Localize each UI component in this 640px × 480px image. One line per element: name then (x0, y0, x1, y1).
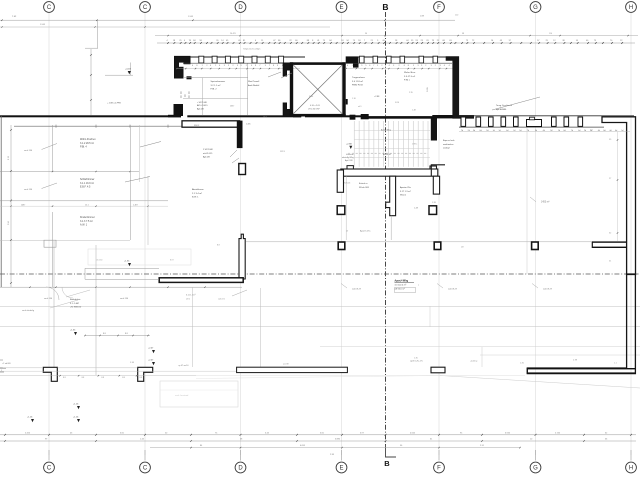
svg-text:8.8: 8.8 (101, 377, 104, 379)
svg-text:2d: 2d (513, 130, 515, 132)
svg-text:4: 4 (444, 65, 445, 67)
svg-text:T.Bqm.Dicht w.Bqm: T.Bqm.Dicht w.Bqm (243, 48, 261, 51)
svg-text:3.885: 3.885 (335, 439, 341, 441)
svg-text:wohnfl.29: wohnfl.29 (352, 288, 362, 290)
svg-text:E: E (339, 466, 343, 472)
svg-text:F.90 x: F.90 x (404, 80, 411, 82)
svg-text:9: 9 (277, 65, 278, 67)
svg-text:3.5 47.5 m²: 3.5 47.5 m² (404, 75, 415, 78)
svg-text:B: B (382, 2, 388, 12)
svg-text:+d.dd sp: +d.dd sp (470, 361, 477, 363)
svg-text:C: C (47, 5, 52, 11)
svg-text:3d: 3d (550, 130, 552, 132)
svg-text:5: 5 (377, 65, 378, 67)
svg-text:D: D (238, 5, 243, 11)
svg-text:2.635: 2.635 (427, 87, 429, 92)
svg-text:1: 1 (202, 65, 203, 67)
svg-text:Wnd.Trennfl: Wnd.Trennfl (248, 80, 260, 83)
svg-text:9: 9 (241, 65, 242, 67)
svg-text:Treppenhaus: Treppenhaus (352, 76, 366, 79)
svg-text:1.48 f: 1.48 f (133, 204, 138, 206)
svg-text:+2.88: +2.88 (346, 144, 352, 146)
svg-text:+1.16: +1.16 (73, 404, 79, 406)
svg-text:2: 2 (425, 65, 426, 67)
svg-text:Apt.2.88: Apt.2.88 (345, 159, 353, 162)
svg-text:7d: 7d (571, 130, 573, 132)
svg-text:9: 9 (361, 65, 362, 67)
svg-text:+1.35: +1.35 (124, 261, 130, 263)
svg-text:8.8 f: 8.8 f (170, 260, 174, 262)
svg-text:7: 7 (269, 65, 270, 67)
svg-text:3.0 122.4 m²: 3.0 122.4 m² (395, 284, 407, 287)
svg-text:3: 3 (431, 65, 432, 67)
svg-text:Kinderzimmer: Kinderzimmer (80, 216, 95, 219)
svg-text:5.745: 5.745 (555, 432, 561, 434)
svg-text:Apart.4 Whg: Apart.4 Whg (395, 280, 409, 283)
svg-text:5: 5 (413, 65, 414, 67)
svg-text:1.1: 1.1 (614, 363, 617, 365)
svg-text:2.1 3.4 m²: 2.1 3.4 m² (192, 192, 202, 195)
svg-text:2: 2 (435, 65, 436, 67)
svg-text:36: 36 (365, 33, 367, 35)
svg-text:N.N.16: N.N.16 (344, 183, 351, 185)
svg-text:9: 9 (1, 370, 2, 372)
svg-text:9: 9 (418, 65, 419, 67)
svg-text:3.0 11.8 m²: 3.0 11.8 m² (352, 80, 363, 83)
svg-text:Atr.Nr.16: Atr.Nr.16 (383, 153, 392, 156)
svg-text:2: 2 (206, 65, 207, 67)
svg-text:6.945: 6.945 (505, 432, 511, 434)
svg-text:9d: 9d (519, 130, 521, 132)
svg-text:H: H (629, 466, 633, 472)
svg-text:vorh.136: vorh.136 (24, 188, 33, 191)
svg-text:9: 9 (421, 65, 422, 67)
svg-text:4d: 4d (598, 130, 600, 132)
svg-text:148 f: 148 f (21, 204, 26, 206)
svg-text:1.945: 1.945 (188, 16, 194, 18)
svg-text:98: 98 (462, 33, 464, 35)
svg-text:9: 9 (237, 65, 238, 67)
svg-text:1.VST.GIK: 1.VST.GIK (203, 149, 213, 151)
svg-text:+2.47: +2.47 (148, 348, 154, 350)
svg-text:Wohn./Kochen: Wohn./Kochen (80, 138, 96, 141)
svg-text:5d: 5d (621, 130, 623, 132)
svg-text:3.11 1.6m²: 3.11 1.6m² (186, 294, 196, 297)
svg-text:F: F (437, 466, 441, 472)
svg-text:5: 5 (365, 65, 366, 67)
svg-text:+p.07 w=16: +p.07 w=16 (178, 365, 189, 367)
svg-text:+1.35: +1.35 (70, 330, 76, 332)
svg-text:+.VST GlK: +.VST GlK (197, 102, 207, 104)
svg-text:3: 3 (224, 65, 225, 67)
svg-text:Apartm.29a: Apartm.29a (400, 186, 412, 189)
svg-text:2: 2 (246, 65, 247, 67)
svg-text:3: 3 (440, 65, 441, 67)
svg-text:Abstellraum: Abstellraum (192, 188, 204, 191)
svg-text:H: H (629, 5, 633, 11)
svg-text:3: 3 (393, 65, 394, 67)
svg-text:7: 7 (259, 65, 260, 67)
svg-text:2: 2 (385, 65, 386, 67)
svg-text:1.16: 1.16 (352, 98, 356, 100)
svg-text:wfl 94.6 m²: wfl 94.6 m² (395, 287, 405, 290)
svg-text:6: 6 (210, 65, 211, 67)
svg-text:Wnd.1: Wnd.1 (400, 195, 407, 197)
svg-text:6.695: 6.695 (300, 445, 306, 447)
svg-text:8: 8 (255, 65, 256, 67)
svg-text:Speisekammer: Speisekammer (211, 80, 226, 83)
svg-text:15.1: 15.1 (85, 204, 89, 206)
svg-text:8.8: 8.8 (63, 377, 66, 379)
svg-text:5.325: 5.325 (25, 432, 31, 434)
svg-text:Apt.DB: Apt.DB (197, 107, 204, 110)
svg-text:D: D (238, 466, 243, 472)
svg-text:1.35: 1.35 (414, 358, 418, 360)
svg-text:+2.47: +2.47 (148, 360, 154, 362)
svg-text:Antritt Whg: Antritt Whg (381, 129, 391, 132)
svg-text:Vorraum: Vorraum (346, 154, 354, 156)
svg-text:vorh. bestand: vorh. bestand (175, 394, 189, 397)
svg-text:3.1.1 16.9 m²: 3.1.1 16.9 m² (80, 182, 94, 185)
svg-text:4d: 4d (543, 130, 545, 132)
svg-text:4: 4 (251, 65, 252, 67)
svg-text:7d: 7d (461, 130, 463, 132)
svg-text:sp.Bt w.9a.1%: sp.Bt w.9a.1% (410, 360, 423, 363)
svg-text:F: F (437, 5, 441, 11)
svg-text:4d: 4d (506, 130, 508, 132)
svg-text:4d: 4d (609, 130, 611, 132)
svg-text:wohnfl.29: wohnfl.29 (448, 288, 458, 290)
svg-text:3.1.3 7.5 m²: 3.1.3 7.5 m² (80, 220, 93, 223)
svg-text:1.48: 1.48 (412, 110, 416, 112)
svg-text:4.10 x 2.05: 4.10 x 2.05 (310, 105, 321, 107)
svg-text:4: 4 (219, 65, 220, 67)
svg-text:vorh.1%: vorh.1% (218, 297, 225, 300)
svg-text:G: G (533, 5, 538, 11)
svg-text:8: 8 (408, 65, 409, 67)
svg-text:E: E (339, 5, 343, 11)
svg-text:+2 ab.NN: +2 ab.NN (2, 363, 11, 365)
svg-text:A.W. 1: A.W. 1 (80, 224, 88, 227)
svg-text:1: 1 (352, 65, 353, 67)
svg-text:vorh.136: vorh.136 (24, 149, 33, 152)
svg-text:3.2 1.1 m²: 3.2 1.1 m² (211, 84, 221, 87)
svg-text:wrtzbqf: wrtzbqf (443, 147, 450, 150)
svg-text:2: 2 (215, 65, 216, 67)
svg-text:wmfrtmehm: wmfrtmehm (443, 143, 454, 146)
svg-text:8: 8 (196, 65, 197, 67)
svg-text:+N. W.Echtr: +N. W.Echtr (70, 306, 81, 309)
svg-text:1d: 1d (499, 130, 501, 132)
svg-text:Estrich m.: Estrich m. (359, 182, 368, 185)
svg-text:+ 2.88 o.k.FFB: + 2.88 o.k.FFB (107, 103, 121, 105)
svg-text:3.1 -5.66²: 3.1 -5.66² (70, 302, 79, 305)
svg-text:C: C (143, 466, 148, 472)
svg-text:4d: 4d (615, 130, 617, 132)
svg-text:4.565: 4.565 (410, 432, 416, 434)
svg-text:wfl 1: wfl 1 (186, 298, 190, 300)
svg-text:G: G (533, 466, 538, 472)
svg-text:+1.16: +1.16 (73, 417, 79, 419)
svg-text:+1.16: +1.16 (27, 417, 33, 419)
svg-text:8.8: 8.8 (140, 377, 143, 379)
svg-text:6: 6 (404, 65, 405, 67)
svg-text:2: 2 (381, 65, 382, 67)
svg-text:7d: 7d (527, 130, 529, 132)
svg-text:5: 5 (228, 65, 229, 67)
svg-text:1d: 1d (493, 130, 495, 132)
svg-text:6d: 6d (480, 130, 482, 132)
svg-text:6: 6 (192, 65, 193, 67)
svg-text:3d: 3d (535, 130, 537, 132)
svg-text:wohnfl.29: wohnfl.29 (543, 289, 553, 291)
svg-text:3d: 3d (473, 130, 475, 132)
svg-text:Wohn./Essr.: Wohn./Essr. (404, 71, 416, 74)
svg-text:C: C (47, 466, 52, 472)
svg-text:8d: 8d (603, 130, 605, 132)
svg-text:8.8: 8.8 (217, 245, 220, 247)
svg-text:6d: 6d (563, 130, 565, 132)
svg-text:8.8: 8.8 (82, 377, 85, 379)
svg-text:vorh.136: vorh.136 (120, 297, 129, 300)
svg-text:abstellg.Whg: abstellg.Whg (342, 156, 354, 159)
svg-text:N.16: N.16 (395, 102, 399, 104)
svg-text:wf 9: wf 9 (358, 106, 361, 108)
svg-text:FB90 FL92: FB90 FL92 (352, 85, 364, 87)
svg-text:4d: 4d (578, 130, 580, 132)
svg-text:1453 m²: 1453 m² (541, 201, 550, 204)
svg-text:F90 Fl: F90 Fl (194, 125, 200, 127)
svg-text:+4.18: +4.18 (125, 69, 131, 71)
svg-text:Apt.DB: Apt.DB (203, 156, 210, 159)
svg-text:8.8: 8.8 (122, 377, 125, 379)
svg-text:2: 2 (232, 65, 233, 67)
svg-text:FB ob.OKF: FB ob.OKF (359, 187, 370, 189)
svg-text:ust.38: ust.38 (283, 363, 289, 366)
svg-text:Schlafzimmer: Schlafzimmer (80, 178, 95, 181)
svg-text:vorh.136: vorh.136 (44, 297, 53, 300)
svg-text:2: 2 (398, 65, 399, 67)
svg-text:3.1.2 29.5 m²: 3.1.2 29.5 m² (80, 142, 94, 145)
svg-text:C: C (143, 5, 148, 11)
svg-text:vrh.160: vrh.160 (96, 259, 102, 262)
svg-text:1%: 1% (0, 368, 3, 370)
svg-text:4: 4 (389, 65, 390, 67)
svg-text:7: 7 (373, 65, 374, 67)
svg-text:1d: 1d (558, 130, 560, 132)
svg-text:8: 8 (273, 65, 274, 67)
svg-text:1.945: 1.945 (40, 24, 46, 26)
svg-text:6: 6 (369, 65, 370, 67)
svg-text:P.Bl. 4: P.Bl. 4 (80, 146, 87, 149)
svg-text:x: x (418, 285, 419, 287)
svg-text:mhf.2.015: mhf.2.015 (203, 153, 213, 155)
svg-text:4: 4 (449, 65, 450, 67)
svg-text:B.W. 1: B.W. 1 (192, 197, 199, 199)
svg-text:Bqm.auf anfr.: Bqm.auf anfr. (443, 140, 455, 142)
svg-text:4: 4 (347, 65, 348, 67)
svg-text:2d: 2d (584, 130, 586, 132)
svg-text:LH 2.30 OKF: LH 2.30 OKF (308, 109, 320, 111)
svg-text:2.485: 2.485 (246, 124, 251, 126)
svg-text:vorh.abcdefg: vorh.abcdefg (22, 309, 35, 312)
svg-text:110: 110 (549, 33, 552, 35)
svg-text:F.Bl. 2: F.Bl. 2 (211, 89, 218, 91)
svg-text:10.9: 10.9 (263, 117, 267, 119)
svg-text:3: 3 (265, 65, 266, 67)
svg-text:1.98 x: 1.98 x (412, 143, 417, 145)
svg-text:2d: 2d (468, 130, 470, 132)
svg-text:+2.88: +2.88 (374, 96, 380, 98)
svg-text:2.35: 2.35 (409, 92, 413, 94)
svg-text:26.425: 26.425 (230, 33, 236, 35)
svg-text:3.17 1.3 m²: 3.17 1.3 m² (400, 190, 411, 193)
svg-text:APL.Cl.015: APL.Cl.015 (197, 104, 208, 107)
svg-text:Amb.Wmbkl: Amb.Wmbkl (248, 84, 260, 87)
svg-text:Apartm.29a: Apartm.29a (360, 230, 371, 233)
svg-text:133 f: 133 f (230, 106, 235, 108)
svg-text:3d: 3d (486, 130, 488, 132)
svg-text:B: B (384, 459, 390, 468)
svg-text:E.B.F. 4.5: E.B.F. 4.5 (80, 186, 91, 189)
